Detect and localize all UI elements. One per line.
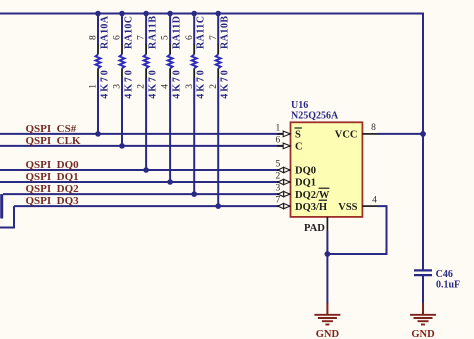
svg-text:2: 2 (276, 172, 281, 182)
svg-text:PAD: PAD (304, 223, 325, 234)
svg-text:8: 8 (371, 123, 376, 133)
svg-text:QSPI CS#: QSPI CS# (26, 123, 77, 135)
resistor RA10A 4K70 (89, 11, 111, 137)
svg-text:GND: GND (316, 329, 340, 339)
svg-text:RA11B: RA11B (148, 16, 159, 49)
pin 8 (VCC) of U16 (362, 123, 377, 134)
svg-text:U16: U16 (291, 100, 308, 111)
svg-text:8: 8 (89, 35, 99, 40)
svg-text:5: 5 (161, 35, 171, 40)
svg-text:4K70: 4K70 (100, 70, 111, 99)
svg-text:DQ3/H: DQ3/H (295, 202, 327, 213)
svg-text:4K70: 4K70 (148, 70, 159, 99)
svg-text:DQ0: DQ0 (295, 166, 316, 177)
ground symbol GND (below C46) (410, 303, 436, 339)
svg-text:4: 4 (161, 84, 171, 89)
resistor RA11C 4K70 (185, 11, 207, 197)
IC U16 body (N25Q256A flash) (291, 122, 363, 217)
svg-text:1: 1 (276, 124, 281, 134)
pin 3 (DQ2/W) of U16 (276, 184, 291, 197)
svg-text:QSPI DQ3: QSPI DQ3 (26, 195, 80, 207)
wire + net label QSPI_CS# (0, 123, 284, 135)
svg-text:4K70: 4K70 (220, 70, 231, 99)
svg-text:N25Q256A: N25Q256A (291, 110, 339, 121)
svg-text:C46: C46 (436, 269, 453, 280)
svg-text:S: S (295, 130, 301, 141)
capacitor C46 0.1uF (414, 269, 460, 304)
svg-text:3: 3 (276, 184, 281, 194)
wire + net label QSPI_DQ0 (0, 159, 284, 171)
wire: VCC top bus from left edge, corner, down right side to C46 (0, 14, 423, 271)
svg-text:GND: GND (411, 329, 435, 339)
pin 6 (C) of U16 (276, 136, 291, 149)
wire + net label QSPI_DQ1 (0, 171, 284, 183)
wire + net label QSPI_DQ2 (3, 183, 284, 195)
svg-text:RA10A: RA10A (100, 15, 111, 49)
wire + net label QSPI_DQ3 (14, 195, 284, 207)
resistor RA11D 4K70 (161, 11, 183, 185)
svg-text:3: 3 (113, 84, 123, 89)
svg-text:4: 4 (372, 196, 377, 206)
svg-text:4K70: 4K70 (172, 70, 183, 99)
svg-text:VSS: VSS (338, 202, 357, 213)
svg-text:RA10B: RA10B (220, 16, 231, 49)
svg-text:DQ1: DQ1 (295, 178, 316, 189)
svg-text:RA11D: RA11D (172, 16, 183, 49)
pin 5 (DQ0) of U16 (276, 160, 291, 173)
svg-text:VCC: VCC (335, 130, 358, 141)
svg-text:6: 6 (276, 136, 281, 146)
svg-text:6: 6 (185, 35, 195, 40)
svg-text:QSPI CLK: QSPI CLK (26, 135, 81, 147)
svg-text:QSPI DQ2: QSPI DQ2 (26, 183, 80, 195)
wire: QSPI_DQ3 entry step bottom-left (0, 206, 14, 227)
svg-text:5: 5 (276, 160, 281, 170)
junction: VCC net at right vertical (420, 131, 426, 137)
svg-text:QSPI DQ0: QSPI DQ0 (26, 159, 80, 171)
svg-text:4K70: 4K70 (124, 70, 135, 99)
pin 7 (DQ3/H) of U16 (276, 196, 291, 209)
svg-text:7: 7 (137, 35, 147, 40)
svg-text:2: 2 (209, 84, 219, 89)
wire: QSPI_DQ2 entry stub bottom-left (0, 194, 3, 218)
resistor RA10B 4K70 (209, 11, 231, 209)
resistor RA10C 4K70 (113, 11, 135, 149)
svg-text:1: 1 (89, 84, 99, 89)
svg-text:7: 7 (276, 196, 281, 206)
pin 1 (S) of U16 (276, 124, 291, 137)
svg-text:RA10C: RA10C (124, 16, 135, 49)
pin 4 (VSS) of U16 (362, 196, 377, 207)
svg-text:4K70: 4K70 (196, 70, 207, 99)
pin 2 (DQ1) of U16 (276, 172, 291, 185)
svg-text:7: 7 (209, 35, 219, 40)
svg-text:RA11C: RA11C (196, 16, 207, 49)
svg-text:QSPI DQ1: QSPI DQ1 (26, 171, 79, 183)
svg-text:2: 2 (137, 84, 147, 89)
wire: PAD to ground (326, 231, 328, 304)
resistor RA11B 4K70 (137, 11, 159, 173)
svg-text:3: 3 (185, 84, 195, 89)
wire + net label QSPI_CLK (0, 135, 284, 147)
svg-text:C: C (295, 142, 303, 153)
svg-text:DQ2/W: DQ2/W (295, 190, 330, 201)
ground symbol GND (below PAD) (314, 303, 340, 339)
wire: VCC pin to top bus vertical (377, 133, 423, 135)
wire: VSS pin routed down to PAD node (327, 206, 386, 254)
svg-text:6: 6 (113, 35, 123, 40)
svg-text:0.1uF: 0.1uF (436, 280, 460, 291)
junction: PAD/VSS node (325, 251, 331, 257)
